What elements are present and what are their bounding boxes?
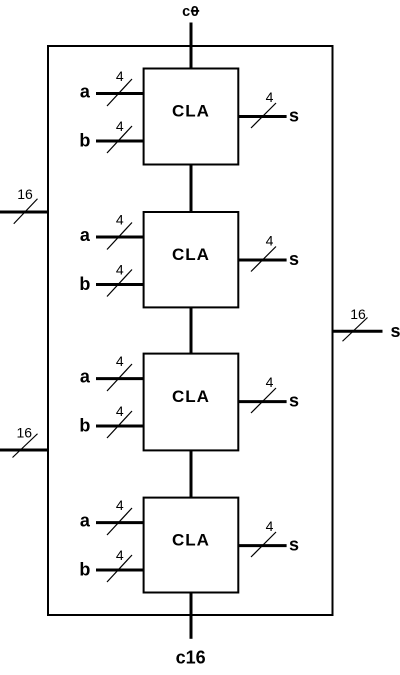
wire: input a4 [96,521,144,524]
svg-text:a: a [80,82,91,102]
CLA block U1 [144,69,239,165]
CLA block U2 [144,212,239,307]
wire: input a3 [96,377,144,380]
svg-text:4: 4 [116,118,124,134]
bus slash b1 [107,126,132,153]
svg-text:4: 4 [266,374,274,390]
svg-text:4: 4 [266,518,274,534]
svg-text:b: b [79,416,90,436]
svg-text:b: b [79,131,90,151]
bus slash s3 [251,388,276,413]
svg-text:4: 4 [116,497,124,513]
wire: input b1 [96,140,144,143]
svg-text:16: 16 [17,186,33,202]
wire: input b2 [96,283,144,286]
wire: 16-bit sum output bus s (right) [333,330,383,333]
svg-text:a: a [80,511,91,531]
bus slash (right 16) [343,318,368,342]
wire: input a2 [96,236,144,239]
wire: input a1 [96,92,144,95]
svg-text:4: 4 [116,211,124,227]
svg-text:s: s [289,249,299,269]
bus slash b4 [107,555,132,582]
CLA block U4 [144,498,239,593]
wire: sum output s3 [238,400,286,403]
bus slash (left upper 16) [14,199,38,224]
bus slash a3 [107,364,132,391]
svg-text:s: s [289,535,299,555]
svg-text:4: 4 [116,68,124,84]
svg-text:CLA: CLA [172,245,210,264]
svg-text:CLA: CLA [172,387,210,406]
bus slash s4 [251,532,276,557]
svg-text:a: a [80,225,91,245]
bus slash a4 [107,508,132,535]
wire: sum output s4 [238,544,286,547]
bus slash a2 [107,223,132,250]
bus slash b3 [107,411,132,438]
wire: input b4 [96,569,144,572]
bus slash b2 [107,270,132,297]
svg-text:4: 4 [116,547,124,563]
wire: 16-bit input bus a (left upper) [0,211,48,214]
wire: 16-bit input bus b (left lower) [0,449,48,452]
bus slash a1 [107,79,132,106]
wire: carry-in c0 into top CLA [190,23,193,69]
wire: input b3 [96,425,144,428]
bus slash s2 [251,247,276,272]
svg-text:b: b [79,560,90,580]
svg-text:s: s [289,391,299,411]
CLA block U3 [144,354,239,451]
wire: carry c4 from U1 to U2 [190,165,193,213]
svg-text:CLA: CLA [172,102,210,121]
svg-text:4: 4 [266,233,274,249]
slashed-zero bar of c0 [191,10,199,12]
svg-text:s: s [289,106,299,126]
wire: carry c8 from U2 to U3 [190,307,193,353]
svg-text:CLA: CLA [172,531,210,550]
svg-text:s: s [391,321,400,341]
svg-text:16: 16 [350,306,366,322]
svg-text:16: 16 [17,425,33,441]
svg-text:c16: c16 [176,648,206,668]
wire: carry-out c16 from U4 [190,593,193,639]
bus slash (left lower 16) [13,434,38,458]
svg-text:4: 4 [116,403,124,419]
svg-text:4: 4 [116,353,124,369]
svg-text:4: 4 [116,262,124,278]
wire: carry c12 from U3 to U4 [190,450,193,497]
wire: sum output s1 [238,115,286,118]
svg-text:a: a [80,367,91,387]
bus slash s1 [251,103,276,128]
svg-text:b: b [79,274,90,294]
svg-text:4: 4 [266,89,274,105]
wire: sum output s2 [238,259,286,262]
outer box: 16-bit adder boundary [48,46,333,615]
